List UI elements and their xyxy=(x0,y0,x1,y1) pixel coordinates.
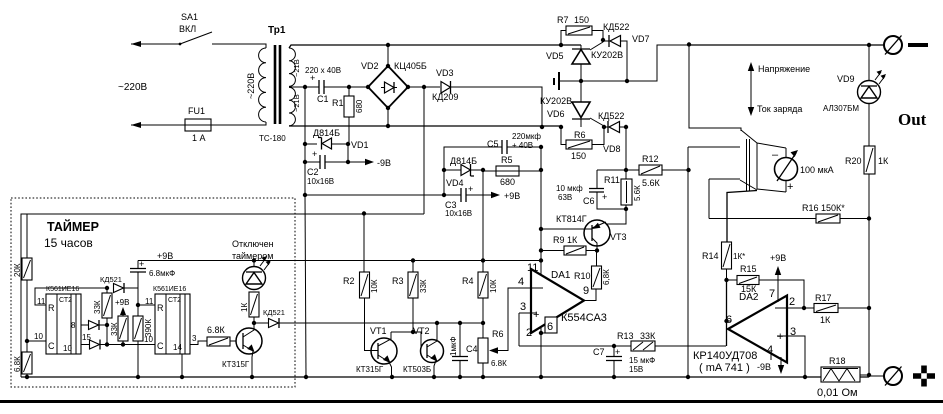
svg-text:КТ503Б: КТ503Б xyxy=(403,365,431,374)
node VD4 cathode R5 left xyxy=(481,168,485,172)
svg-text:33К: 33К xyxy=(419,279,428,293)
svg-text:4: 4 xyxy=(518,276,524,288)
fuse FU1 xyxy=(181,106,215,143)
resistor R11 5.6К xyxy=(604,170,642,209)
svg-text:DA1: DA1 xyxy=(551,270,571,281)
resistor R20 1К xyxy=(845,146,889,219)
ground chassis symbol xyxy=(554,72,581,90)
wire DA1 pin3 loop xyxy=(518,313,520,346)
svg-text:ТС-180: ТС-180 xyxy=(259,134,286,143)
wire DA1 output pin9 to R10 xyxy=(584,289,596,301)
svg-text:КТ814Г: КТ814Г xyxy=(556,214,587,224)
wire feedback line y346 xyxy=(519,345,631,347)
node rail C4 xyxy=(458,375,462,379)
op-amp DA2 КР140УД708 xyxy=(693,288,796,374)
svg-text:С6: С6 xyxy=(583,196,595,206)
wire switch to transformer primary top xyxy=(212,44,266,48)
svg-text:5.6К: 5.6К xyxy=(642,178,661,188)
node rail DA2 pin3 xyxy=(803,375,807,379)
node C7 top xyxy=(612,344,616,348)
switch SA1 xyxy=(179,12,212,45)
svg-text:КД522: КД522 xyxy=(598,111,624,121)
svg-text:5.6К: 5.6К xyxy=(633,185,642,201)
node C2 left xyxy=(303,160,307,164)
resistor R13 33К xyxy=(617,331,726,351)
net arrow +9В at C3 xyxy=(483,191,520,201)
node rail VT1 emitter xyxy=(390,375,394,379)
wire VD8 node down to R12 node xyxy=(625,127,627,170)
svg-text:680: 680 xyxy=(355,99,364,113)
svg-text:DA2: DA2 xyxy=(739,292,759,303)
node minus bus junction xyxy=(687,42,691,46)
node C2 right xyxy=(346,160,350,164)
node R12 left xyxy=(624,168,628,172)
node R4 top xyxy=(481,258,485,262)
svg-text:680: 680 xyxy=(500,177,515,187)
node VD3 output to return rail xyxy=(540,125,544,129)
svg-text:С4: С4 xyxy=(466,344,478,354)
node LED branch on minus bus xyxy=(867,43,871,47)
transistor VT timer КТ315Г xyxy=(222,323,262,377)
svg-text:33К: 33К xyxy=(93,300,102,314)
svg-text:6.8К: 6.8К xyxy=(491,359,507,368)
svg-text:КД522: КД522 xyxy=(603,22,629,32)
svg-text:R20: R20 xyxy=(845,156,862,166)
wire diode node down xyxy=(106,325,108,345)
potentiometer R6 6.8К xyxy=(478,288,531,375)
transistor VT1 КТ315Г xyxy=(356,326,397,377)
diode КД521 timer right xyxy=(254,308,285,328)
capacitor C5 220мкф 40В xyxy=(487,132,541,154)
node 33К bottom xyxy=(121,342,125,346)
wire switch throw 3 from R16 line xyxy=(709,179,757,190)
svg-text:+: + xyxy=(310,73,315,83)
svg-text:КД521: КД521 xyxy=(100,275,122,284)
wire cathode line to minus bus riser xyxy=(581,45,689,81)
wire DD2 pin11 xyxy=(138,304,155,306)
svg-text:-9В: -9В xyxy=(757,362,771,372)
svg-text:К561ИЕ16: К561ИЕ16 xyxy=(153,286,186,293)
capacitor C4 1мкФ xyxy=(449,323,478,375)
node common to C3 line xyxy=(303,193,307,197)
node R9 left xyxy=(539,248,543,252)
wire DA2 pin2 line xyxy=(787,307,814,309)
output terminal minus xyxy=(869,36,928,55)
node R2 top xyxy=(362,211,366,215)
wire rail left riser in timer xyxy=(21,214,27,377)
node VD8 output xyxy=(624,125,628,129)
diode DD1 pin15 xyxy=(81,340,100,350)
svg-text:10х16В: 10х16В xyxy=(445,209,472,218)
wire R1 bottom to VD1 node xyxy=(347,144,349,162)
wire osc column down xyxy=(137,305,139,316)
resistor R15 15К xyxy=(727,264,805,308)
node pin2 strobe join xyxy=(539,331,543,335)
svg-text:R4: R4 xyxy=(462,276,474,286)
DA1 strobe pin 6 box xyxy=(541,317,557,333)
svg-text:+: + xyxy=(312,149,317,159)
supply -9В arrow pin4 xyxy=(757,353,784,374)
wire DD1 pin11 riser xyxy=(35,288,107,305)
node VT2 collector xyxy=(435,321,439,325)
svg-text:100 мкА: 100 мкА xyxy=(800,165,834,175)
resistor R12 5.6К xyxy=(626,154,688,188)
svg-text:7: 7 xyxy=(769,288,775,300)
LED Отключен таймером xyxy=(232,239,274,290)
wire throw3 down to R16 line xyxy=(708,179,710,219)
svg-text:( mA 741 ): ( mA 741 ) xyxy=(699,362,750,374)
svg-text:6: 6 xyxy=(547,321,553,333)
wire drive node line y323 xyxy=(282,322,483,324)
svg-text:Напряжение: Напряжение xyxy=(758,64,810,74)
node R9 right VT3 collector xyxy=(595,248,599,252)
svg-text:R1: R1 xyxy=(332,98,344,108)
svg-text:КЦ405Б: КЦ405Б xyxy=(394,61,427,71)
resistor R5 680 xyxy=(483,155,541,187)
svg-text:К554СА3: К554СА3 xyxy=(561,312,607,324)
wire DA2 output column xyxy=(726,280,728,346)
svg-text:–: – xyxy=(772,149,779,161)
svg-text:10х16В: 10х16В xyxy=(307,177,334,186)
node R17 right xyxy=(867,306,871,310)
node VD5 gate xyxy=(601,38,605,42)
diode VD8 КД522 xyxy=(598,111,626,154)
wire common line y195 to VD4 node xyxy=(305,194,444,196)
node pin2 R15 junction xyxy=(802,306,806,310)
node rail VT2 emitter xyxy=(432,375,436,379)
wire left node riser xyxy=(444,147,502,195)
svg-text:R7: R7 xyxy=(557,15,569,25)
svg-text:2: 2 xyxy=(526,327,532,339)
node R11 bottom xyxy=(624,207,628,211)
counter DD2 К561ИЕ16 xyxy=(144,286,197,354)
wire minus bus to output xyxy=(689,44,884,46)
svg-text:+9В: +9В xyxy=(115,298,129,307)
node rail 6.8К xyxy=(25,375,29,379)
selector arrows Напряжение / Ток заряда xyxy=(748,62,810,116)
wire raw line y214 into timer xyxy=(27,213,424,215)
diode VD3 КД209 xyxy=(424,68,542,127)
wire pin10 xyxy=(27,340,46,342)
resistor 20К xyxy=(13,258,32,341)
svg-text:КТ315Г: КТ315Г xyxy=(222,360,250,369)
svg-text:КТ315Г: КТ315Г xyxy=(356,365,384,374)
svg-text:С5: С5 xyxy=(487,139,499,149)
svg-text:FU1: FU1 xyxy=(188,106,205,116)
supply +9В arrow pin7 xyxy=(770,253,786,302)
node DD1 pin10 xyxy=(25,339,29,343)
diode DD1 pin8 xyxy=(81,320,107,330)
svg-text:11: 11 xyxy=(527,262,538,274)
node rail DA1 pin2 xyxy=(539,375,543,379)
svg-text:С7: С7 xyxy=(593,347,605,357)
svg-text:~21В: ~21В xyxy=(292,94,301,112)
wire VD4 cathode down to C3 and R4 column xyxy=(482,170,484,261)
node R4 bottom R6 top xyxy=(481,321,485,325)
resistor 33К osc xyxy=(93,288,112,325)
node R5 right on +9В riser xyxy=(539,168,543,172)
resistor 33К mid xyxy=(110,316,128,345)
LED VD9 АЛ307БМ xyxy=(823,45,886,146)
wire row to DD2 pin10 xyxy=(100,344,155,346)
node VD4 anode xyxy=(442,168,446,172)
node VT3 base tap xyxy=(539,227,543,231)
node VD6 gate xyxy=(602,125,606,129)
node rail common branch xyxy=(304,375,308,379)
capacitor C2 10x16В xyxy=(305,149,348,186)
node rail timer VT emitter xyxy=(250,375,254,379)
svg-text:1К: 1К xyxy=(240,303,249,312)
node +9В on DA1 supply riser xyxy=(539,258,543,262)
svg-text:КУ202В: КУ202В xyxy=(591,50,623,60)
svg-text:АЛ307БМ: АЛ307БМ xyxy=(823,104,859,113)
svg-text:0,01 Ом: 0,01 Ом xyxy=(817,387,858,399)
wire throw 2 from R12 column xyxy=(688,146,740,148)
node C5 right on +9В riser xyxy=(539,145,543,149)
resistor R2 10К xyxy=(343,214,379,351)
svg-text:КР140УД708: КР140УД708 xyxy=(693,350,757,362)
svg-text:11: 11 xyxy=(145,297,154,306)
svg-text:С: С xyxy=(157,341,164,351)
capacitor C7 15мкФ 15В xyxy=(593,346,655,376)
node tap junction xyxy=(303,85,307,89)
svg-text:VD8: VD8 xyxy=(603,144,621,154)
svg-text:R5: R5 xyxy=(501,155,513,165)
svg-text:R14: R14 xyxy=(702,251,719,261)
svg-text:10К: 10К xyxy=(489,279,498,293)
svg-text:ТАЙМЕР: ТАЙМЕР xyxy=(47,219,99,234)
resistor R9 1К xyxy=(541,235,597,255)
svg-text:14: 14 xyxy=(173,343,182,352)
svg-text:КД209: КД209 xyxy=(432,92,458,102)
node DA2 output pin6 xyxy=(724,319,728,323)
svg-text:VD1: VD1 xyxy=(351,140,369,150)
svg-text:15 часов: 15 часов xyxy=(44,236,93,250)
timer dashed enclosure xyxy=(11,198,295,387)
wire R16 node down to rail xyxy=(868,219,870,376)
svg-text:С: С xyxy=(48,341,55,351)
output terminal plus xyxy=(860,366,935,387)
svg-text:+: + xyxy=(468,184,473,194)
node C4 top xyxy=(458,321,462,325)
capacitor C6 10мкф 63В xyxy=(556,170,626,209)
svg-text:VD2: VD2 xyxy=(361,61,379,71)
svg-text:10: 10 xyxy=(144,335,153,344)
wire secondary centre tap xyxy=(289,86,311,88)
svg-text:10: 10 xyxy=(34,332,43,341)
node VD5 cathode xyxy=(579,79,583,83)
svg-text:R12: R12 xyxy=(642,154,659,164)
node diode2 out xyxy=(105,342,109,346)
svg-text:Д814Б: Д814Б xyxy=(450,156,477,166)
net arrow -9В xyxy=(348,158,391,168)
figure separator bar xyxy=(0,400,943,403)
wire R12 column down xyxy=(687,147,689,376)
svg-text:R11: R11 xyxy=(604,175,620,185)
svg-text:1К*: 1К* xyxy=(733,252,745,261)
svg-text:VD4: VD4 xyxy=(446,178,464,188)
svg-text:VD9: VD9 xyxy=(837,74,855,84)
svg-text:VD6: VD6 xyxy=(547,109,565,119)
svg-text:6.8К: 6.8К xyxy=(207,325,226,335)
diode VD4 Д814Б xyxy=(444,147,483,195)
svg-text:Out: Out xyxy=(898,110,927,129)
transistor VT2 КТ503Б xyxy=(403,323,444,377)
svg-text:VD7: VD7 xyxy=(632,34,650,44)
wire mains top line to switch xyxy=(131,41,180,47)
svg-text:R9 1К: R9 1К xyxy=(553,235,578,245)
svg-text:Ток заряда: Ток заряда xyxy=(757,104,802,114)
svg-text:3: 3 xyxy=(192,334,197,343)
svg-text:КУ202В: КУ202В xyxy=(540,96,572,106)
svg-text:1мкФ: 1мкФ xyxy=(449,336,458,356)
diode КД521 timer left xyxy=(100,275,138,293)
svg-text:Д814Б: Д814Б xyxy=(313,128,340,138)
svg-text:1К: 1К xyxy=(878,156,889,166)
svg-text:+: + xyxy=(139,259,144,269)
node oscillator node A xyxy=(105,286,109,290)
svg-text:63В: 63В xyxy=(558,193,572,202)
node R16 junction xyxy=(867,216,871,220)
meter frame xyxy=(757,143,786,192)
wire pin6 stub xyxy=(727,320,732,322)
wire common branch down from tap xyxy=(304,87,306,144)
wire common down past C2 xyxy=(304,144,306,195)
node VD3 branch junction xyxy=(422,85,426,89)
resistor R10 6,8К xyxy=(574,251,611,290)
wire secondary bottom to return rail xyxy=(289,125,561,127)
wire VT1 collector line to VT2 base xyxy=(391,332,426,351)
wire node to VT3 emitter xyxy=(605,209,626,224)
diode VD7 КД522 xyxy=(603,22,650,81)
resistor 6.8К base xyxy=(207,325,243,346)
svg-text:+9В: +9В xyxy=(770,253,786,263)
node VD6 cathode on return rail xyxy=(559,125,563,129)
node diode row joint xyxy=(105,323,109,327)
wire DA2 pin3 to rail xyxy=(787,336,805,375)
svg-text:VT2: VT2 xyxy=(413,326,430,336)
capacitor C1 220x40В xyxy=(305,66,368,104)
svg-text:VT3: VT3 xyxy=(610,232,627,242)
node VD4-C3-C5 left junction xyxy=(442,193,446,197)
node bridge bottom on return rail xyxy=(386,124,390,128)
wire mains bottom line with arrow xyxy=(131,122,185,128)
svg-text:9: 9 xyxy=(583,285,589,297)
svg-text:КД521: КД521 xyxy=(263,308,285,317)
node rail 390К xyxy=(136,375,140,379)
svg-text:10: 10 xyxy=(63,344,72,353)
bridge rectifier VD2 КЦ405Б xyxy=(324,45,427,126)
wire DA1 pin2 drop to rail xyxy=(540,327,542,376)
resistor R16 150К* xyxy=(709,203,869,223)
svg-text:150: 150 xyxy=(571,151,586,161)
svg-text:10 мкф: 10 мкф xyxy=(556,184,583,193)
wire raw feed down to 20К xyxy=(26,214,28,258)
svg-text:150: 150 xyxy=(574,15,589,25)
svg-text:~220В: ~220В xyxy=(246,73,256,99)
node R3 top xyxy=(411,258,415,262)
transformer T1 secondary winding lower ~21В xyxy=(289,87,301,125)
svg-text:+9В: +9В xyxy=(504,191,520,201)
zener VD1 Д814Б xyxy=(305,128,369,150)
resistor R7 150 xyxy=(557,15,603,45)
svg-text:+: + xyxy=(533,309,539,321)
node rail R6 xyxy=(481,375,485,379)
svg-text:1 А: 1 А xyxy=(192,133,206,143)
svg-text:VD5: VD5 xyxy=(546,51,564,61)
meter PA1 100мкА xyxy=(772,149,834,193)
svg-text:R: R xyxy=(48,303,55,313)
svg-text:+9В: +9В xyxy=(157,251,173,261)
resistor R4 10К xyxy=(462,261,498,324)
wire common down to bottom rail xyxy=(305,195,306,376)
wire +9В distribution line xyxy=(138,260,541,262)
resistor R1 680 xyxy=(332,87,364,144)
svg-text:4: 4 xyxy=(767,344,773,356)
svg-text:8: 8 xyxy=(71,321,76,330)
wire raw branch down from bridge node xyxy=(423,87,425,214)
svg-text:R13: R13 xyxy=(617,331,634,341)
svg-text:2: 2 xyxy=(789,296,795,308)
comparator DA1 К554СА3 xyxy=(518,262,607,339)
wire DD2 pin3 xyxy=(190,341,207,345)
svg-text:Отключен: Отключен xyxy=(232,239,274,249)
wire minus bus down to switch throw 1 xyxy=(689,45,741,131)
svg-text:VT1: VT1 xyxy=(370,326,387,336)
svg-text:R15: R15 xyxy=(740,264,757,274)
node VD1 right xyxy=(346,142,350,146)
resistor 1К LED xyxy=(240,261,259,324)
svg-text:+: + xyxy=(777,331,783,343)
wire secondary top to plus rail xyxy=(289,45,581,48)
svg-text:R18: R18 xyxy=(829,356,846,366)
svg-text:R17: R17 xyxy=(815,293,832,303)
svg-text:VD3: VD3 xyxy=(436,68,454,78)
svg-text:6: 6 xyxy=(726,314,732,326)
resistor R3 33К xyxy=(392,261,428,333)
svg-text:15В: 15В xyxy=(629,365,643,374)
svg-text:R6: R6 xyxy=(492,329,504,339)
svg-text:СТ2: СТ2 xyxy=(168,297,181,304)
node DD2 pin11 xyxy=(136,303,140,307)
counter DD1 К561ИЕ16 xyxy=(34,286,91,354)
svg-text:R6: R6 xyxy=(574,130,586,140)
svg-text:SA1: SA1 xyxy=(181,12,198,22)
svg-text:R16 150К*: R16 150К* xyxy=(802,203,845,213)
label ТАЙМЕР 15 часов xyxy=(44,219,99,250)
svg-text:+: + xyxy=(615,347,620,357)
net arrow +9В mid timer xyxy=(115,298,129,316)
resistor R6 150 xyxy=(561,127,604,161)
svg-text:таймером: таймером xyxy=(232,251,273,261)
shunt R18 0.01 Ом xyxy=(817,356,860,399)
node VT collector xyxy=(252,321,256,325)
wire +9В riser C5 to DA1 pin11 xyxy=(540,147,542,276)
wire fuse to transformer primary bottom xyxy=(215,122,266,125)
node rail R12 column xyxy=(686,375,690,379)
svg-text:СТ2: СТ2 xyxy=(59,297,72,304)
thyristor VD6 КУ202В xyxy=(540,81,604,127)
svg-text:+: + xyxy=(787,181,793,193)
svg-text:220мкф: 220мкф xyxy=(512,132,541,141)
node rail DD2 pin14 xyxy=(180,375,184,379)
resistor 390К xyxy=(133,316,153,377)
thyristor VD5 КУ202В xyxy=(546,42,623,81)
wire DD2 pin14 to rail xyxy=(181,354,183,377)
svg-text:~220В: ~220В xyxy=(118,82,148,93)
svg-text:К561ИЕ16: К561ИЕ16 xyxy=(46,286,79,293)
svg-text:+: + xyxy=(602,192,607,202)
